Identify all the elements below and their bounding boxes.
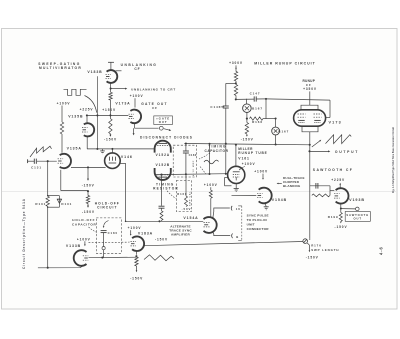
node A junction (47, 160, 49, 162)
ground on cathode bus (102, 149, 104, 151)
svg-text:CAPACITOR: CAPACITOR (204, 149, 228, 153)
V183B plate stub to supply (110, 62, 112, 70)
neon bulb B167 second (275, 119, 277, 127)
timing supply bus (184, 144, 309, 145)
wire +100V to V173A (134, 98, 136, 107)
svg-text:-50V: -50V (182, 207, 192, 211)
V146 top stub to cathode bus (111, 149, 113, 153)
svg-text:-150V: -150V (82, 210, 95, 214)
svg-text:CF: CF (134, 67, 140, 71)
bus V183A to V154A grid (126, 220, 204, 222)
svg-text:+225V: +225V (331, 178, 345, 182)
V146 right stub down to hold-off bus (120, 162, 126, 164)
wire node A down to R131 (47, 161, 49, 196)
V173A cathode to disconnect-diode line (134, 123, 136, 128)
tube V152B (horseshoe) (155, 168, 171, 180)
tube V135A (60, 154, 71, 168)
resistor below +100V (60, 122, 63, 134)
svg-text:Circuit Description—Type 541A: Circuit Description—Type 541A (22, 198, 26, 269)
wire bus down toward cathode bus (96, 115, 98, 148)
tube V135B (84, 123, 94, 136)
resistor from +300V (lower) (234, 85, 237, 96)
grid stub into V193B (330, 190, 334, 192)
capacitor C160 (185, 144, 187, 151)
V183B right stub (116, 70, 122, 72)
wire V183B grid down to bus (96, 76, 98, 115)
svg-text:V152A: V152A (156, 153, 171, 157)
svg-text:V183A: V183A (138, 232, 153, 236)
svg-text:V133B: V133B (66, 244, 81, 248)
hold-off capacitor C180 (101, 230, 107, 232)
svg-text:C131: C131 (31, 166, 42, 170)
tube V154B (259, 188, 272, 204)
svg-text:C147: C147 (250, 92, 261, 96)
svg-text:RESISTOR: RESISTOR (153, 187, 179, 191)
svg-text:CAPACITOR: CAPACITOR (72, 222, 96, 226)
wire vertical into test point (309, 239, 311, 240)
wire R131 down to V133B cathode wire (47, 206, 49, 267)
connector 16 (230, 206, 233, 211)
V173 internal electrodes left (298, 113, 306, 115)
resistor bus to -150V (109, 119, 112, 134)
capacitor C131 (27, 159, 29, 163)
svg-text:R176: R176 (311, 243, 322, 247)
diode D131 (58, 196, 60, 208)
svg-text:-150V: -150V (334, 225, 347, 229)
tube V133B (74, 250, 87, 266)
wire test point to -150V (307, 243, 309, 245)
svg-text:SAWTOOTH: SAWTOOTH (346, 213, 369, 217)
wire +300V down (235, 65, 237, 71)
svg-text:V173: V173 (329, 120, 342, 124)
svg-text:-150V: -150V (130, 277, 143, 281)
svg-text:R166: R166 (252, 120, 263, 124)
V133B cathode wire (38, 265, 85, 268)
V193B plate to +225V (339, 184, 341, 188)
svg-text:UNIT: UNIT (247, 222, 255, 226)
dashed wire V133B to V183A grid (89, 241, 130, 244)
svg-text:R131: R131 (35, 202, 46, 206)
V146 internal grid bars (108, 157, 110, 161)
svg-text:OUT: OUT (159, 120, 168, 124)
dashed pointer to hold-off box (89, 227, 98, 233)
svg-text:CF: CF (152, 106, 158, 110)
tube V154A (204, 217, 217, 233)
resistor to bus (160, 211, 163, 220)
coupling capacitor to sync amp (161, 175, 163, 206)
svg-text:+100V: +100V (57, 101, 71, 105)
hold-off switch arm (104, 221, 109, 227)
feedback wire to V173 plate loop (266, 99, 330, 100)
diode D131 ties (48, 195, 60, 197)
svg-text:TO PLUG-IN: TO PLUG-IN (247, 218, 268, 222)
V173 output vertical line (309, 132, 311, 239)
svg-text:+100V: +100V (128, 226, 142, 230)
V193B cathode junction (340, 204, 342, 209)
resistor from +300V (upper) (234, 72, 237, 81)
V154A cathode wire to connector B (213, 232, 230, 236)
bulb B167 to R166 (246, 113, 248, 119)
sawtooth CF coupling network (310, 185, 330, 187)
wire to output terminal (342, 208, 356, 210)
svg-text:C160: C160 (189, 153, 197, 157)
wire from feedback node down to R166 (265, 99, 267, 119)
resistor R199 (340, 209, 342, 213)
svg-text:OUT: OUT (354, 217, 362, 221)
V173 cathode bracket (302, 126, 318, 132)
svg-text:+150V: +150V (102, 108, 116, 112)
svg-text:MULTIVIBRATOR: MULTIVIBRATOR (39, 66, 82, 70)
contact to hold-off bottom wire (103, 250, 105, 258)
V161 cathode side stub (225, 177, 228, 179)
wire V135B bottom to cathode bus (86, 136, 88, 149)
svg-text:C146: C146 (210, 105, 221, 109)
svg-text:CONNECTOR: CONNECTOR (247, 227, 270, 231)
wire bus to V135B top (86, 115, 88, 123)
svg-text:OUTPUT: OUTPUT (335, 150, 359, 154)
tube V183A (132, 236, 144, 251)
svg-text:+100V: +100V (254, 169, 268, 173)
svg-text:BLANKING: BLANKING (283, 184, 301, 188)
V154B grid wire (232, 195, 257, 197)
V161 cathode to ground (235, 184, 237, 189)
arrow to sawtooth (312, 141, 320, 147)
svg-text:R160: R160 (177, 192, 187, 196)
wire +100V into V133B plate (84, 241, 86, 245)
svg-text:-150V: -150V (241, 138, 254, 142)
svg-text:+300V: +300V (229, 61, 243, 65)
gate-out arrow (164, 129, 170, 131)
svg-text:+100V: +100V (242, 162, 256, 166)
wire V161 plate to supply bus (235, 145, 237, 167)
svg-text:V161: V161 (238, 157, 250, 161)
C146 wire with capacitor (226, 82, 236, 84)
resistor R166 (250, 117, 263, 120)
V154A grid dashes (204, 222, 210, 224)
svg-text:SWP LENGTH: SWP LENGTH (311, 248, 339, 252)
svg-text:CIRCUIT: CIRCUIT (97, 206, 117, 210)
resistor grid return to -150V (87, 191, 89, 195)
input sawtooth waveform (30, 146, 52, 157)
tube V152A (horseshoe) (155, 141, 171, 153)
V154B cathode to ground (265, 203, 266, 206)
svg-text:UNBLANKING TO CRT: UNBLANKING TO CRT (131, 88, 176, 92)
svg-text:RUNUP TUBE: RUNUP TUBE (238, 151, 267, 155)
V173 internal electrodes right (314, 113, 322, 115)
dashed pointer timing resistor (167, 191, 177, 199)
svg-text:Fig. 4-3 Simplified Type 541A: Fig. 4-3 Simplified Type 541A Time Base … (392, 127, 395, 193)
wire +100V to R down to V135A (61, 106, 63, 123)
tube V146 (full envelope) (105, 153, 121, 169)
switch contact circle (102, 247, 105, 250)
grid resistor (312, 194, 330, 197)
dashed bracket (plug-in connector) (241, 206, 243, 240)
svg-text:AMPLIFIER: AMPLIFIER (171, 232, 190, 236)
svg-text:+100V: +100V (77, 237, 91, 241)
hold-off cap to switch contact (103, 233, 105, 247)
svg-text:V152B: V152B (156, 163, 171, 167)
svg-text:SWP CAL: SWP CAL (189, 191, 192, 207)
svg-text:DISCONNECT DIODES: DISCONNECT DIODES (140, 135, 193, 139)
svg-text:+100V: +100V (204, 183, 218, 187)
wire V135A cathode down (60, 170, 62, 191)
svg-text:+100V: +100V (130, 94, 144, 98)
V183A cathode chain (136, 251, 138, 255)
+GATE OUT box (154, 116, 173, 125)
output sawtooth waveform (326, 135, 352, 144)
arrow UNBLANKING TO CRT (112, 88, 127, 90)
C147 coupling capacitor (236, 98, 254, 100)
gate-out terminal circle (159, 126, 163, 130)
svg-text:R199: R199 (328, 215, 339, 219)
V161 internals (233, 171, 240, 173)
long bottom bus (sync to plug-in) (144, 242, 303, 246)
resistor R131 (46, 196, 49, 206)
svg-text:SYNC PULSE: SYNC PULSE (247, 214, 269, 218)
hold-off capacitor dashed box (96, 218, 121, 253)
down arrow under V173A (133, 128, 135, 134)
timing capacitor dashed box (173, 145, 196, 177)
svg-text:SAWTOOTH CF: SAWTOOTH CF (313, 168, 353, 172)
neon bulb B167 (246, 99, 248, 104)
svg-text:-150V: -150V (104, 138, 117, 142)
svg-text:MILLER RUNUP CIRCUIT: MILLER RUNUP CIRCUIT (254, 62, 316, 66)
wire timing bus to grid wire (209, 144, 211, 174)
V183B cathode wire to node (110, 83, 112, 89)
resistor junction to -150V (246, 119, 248, 123)
dashed pointer timing capacitor (199, 153, 210, 159)
tube V173 (runup amplifier, full envelope) (294, 110, 326, 126)
svg-text:16: 16 (236, 207, 241, 211)
svg-text:V135B: V135B (68, 115, 83, 119)
tube V161 (miller tube) (228, 166, 245, 183)
OUTPUT arrow (311, 150, 330, 152)
svg-text:+225V: +225V (80, 108, 94, 112)
wire +350V to V173 plate bracket (309, 91, 311, 105)
tube V183B (unblanking CF) (107, 70, 118, 83)
SAWTOOTH OUT box (345, 212, 370, 222)
svg-text:B: B (236, 235, 239, 239)
curve from waveform to node (85, 96, 97, 113)
junction tap (235, 81, 237, 85)
cathode bus (87, 148, 155, 150)
svg-text:B167: B167 (278, 129, 289, 133)
sync waveform near V183A (144, 255, 174, 261)
svg-text:C180: C180 (108, 231, 118, 235)
resistor R160 (185, 174, 187, 196)
svg-text:B167: B167 (252, 106, 263, 110)
grid return wire (61, 190, 88, 192)
svg-text:+350V: +350V (303, 87, 317, 91)
svg-text:D131: D131 (61, 202, 72, 206)
svg-text:V183B: V183B (87, 70, 102, 74)
wire +100V into V183A (130, 230, 132, 234)
timing node wire (155, 173, 228, 176)
svg-text:V146: V146 (121, 155, 133, 159)
cathode drop arrow to -150V (87, 167, 89, 179)
sawtooth out terminal circle (356, 207, 360, 211)
V173 plate bracket (301, 105, 318, 110)
wire V135A to V146 (71, 166, 106, 168)
tube V193B (336, 188, 349, 203)
svg-text:V173A: V173A (115, 102, 130, 106)
svg-text:-150V: -150V (155, 238, 168, 242)
resistor V183B cathode load (110, 89, 112, 93)
timing capacitor squiggle (204, 160, 219, 164)
timing resistor dashed box (176, 181, 191, 212)
svg-text:V154A: V154A (183, 216, 198, 220)
wire +100V into V154B plate (262, 174, 264, 179)
wire V133B to hold-off / V183A cathode (89, 256, 137, 259)
V154A plate wire to connector 16 (213, 208, 230, 218)
node bus at +150V row (87, 114, 128, 116)
scan streak line (2, 191, 396, 193)
svg-text:-150V: -150V (82, 184, 95, 188)
connector B (231, 234, 234, 239)
svg-text:-150V: -150V (306, 255, 319, 259)
tube V173A (gate out CF) (130, 110, 141, 124)
test point circle (303, 239, 308, 244)
svg-text:4-10 MMF: 4-10 MMF (192, 160, 195, 176)
gate waveform (square wave) (64, 89, 87, 95)
svg-text:4-6: 4-6 (379, 246, 384, 255)
svg-text:V154B: V154B (272, 198, 287, 202)
svg-text:V193B: V193B (349, 198, 365, 202)
svg-text:V135A: V135A (67, 147, 82, 151)
arrow dual-trace to V154B (278, 182, 282, 184)
